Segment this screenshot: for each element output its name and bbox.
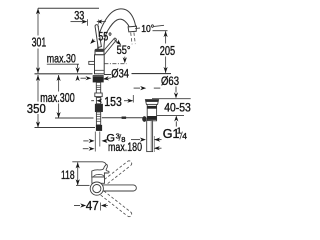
- second view bottom extension line: [76, 184, 90, 186]
- top reference line (spout top level): [38, 7, 99, 9]
- max.30 up arrow (to deck bottom): [76, 75, 80, 81]
- 55deg second down arrow: [124, 57, 126, 59]
- hose connection flare: [95, 93, 102, 97]
- second view: lever bar solid: [102, 185, 137, 191]
- dim 301 bottom arrow: [36, 67, 40, 73]
- lower shank tube upper part: [96, 98, 100, 104]
- svg-text:55°: 55°: [117, 43, 131, 57]
- diameter 63 vertical down arrow: [175, 87, 177, 93]
- G3/8 dim arrows at shank: [83, 140, 88, 142]
- second view: dashed lever down: [101, 191, 132, 217]
- svg-text:Ø34: Ø34: [111, 69, 129, 81]
- dim 301 vertical line (gap at label): [37, 8, 39, 35]
- threaded shank: [96, 82, 100, 97]
- hose end block (dark): [96, 125, 102, 131]
- svg-text:max.300: max.300: [40, 91, 75, 105]
- dim 350 bottom arrow: [36, 122, 40, 128]
- G1 1/4 dim arrows at tailpipe: [131, 139, 140, 141]
- 55deg right arc arrow: [114, 40, 119, 44]
- gasket leader arrow: [81, 77, 87, 79]
- counter line right of faucet: [104, 74, 111, 76]
- shank extension lines: [94, 132, 96, 152]
- label 10deg underlay: [140, 23, 154, 32]
- max.30 vertical line: [77, 64, 79, 68]
- dim 118 vertical line: [77, 162, 79, 185]
- dim diameter 63 line with right arrow: [134, 87, 140, 89]
- drain tailpipe: [147, 121, 153, 152]
- 10 degree slanted line: [135, 25, 164, 28]
- cartridge cap dark band: [95, 49, 104, 52]
- max.30 down arrow (to deck top): [76, 67, 80, 73]
- spout outer curve: [98, 9, 136, 49]
- dim max.300 top arrow: [57, 75, 61, 81]
- water stream dashed lines: [131, 33, 132, 45]
- second view: dashed lever up: [101, 161, 132, 187]
- drain upper dark band: [147, 106, 157, 109]
- extension line hook: [103, 162, 107, 165]
- dim 205 bottom arrow: [164, 67, 168, 73]
- dim 153 right extension line: [132, 95, 134, 103]
- second view: lever grip with upturned tip: [92, 165, 109, 177]
- 55deg left arc arrow: [92, 40, 95, 43]
- dim 350 vertical line (gap at label): [37, 75, 39, 102]
- drain lower dark band: [147, 116, 157, 120]
- mounting gasket and nut (dark): [93, 75, 104, 82]
- counter / deck line left: [35, 73, 93, 75]
- dim 47 right arrow: [103, 205, 108, 207]
- svg-text:301: 301: [32, 35, 47, 50]
- drain flange: [145, 100, 158, 105]
- label 40-53 underlay: [164, 103, 191, 113]
- dim max.300 vertical line (gap at label): [58, 75, 60, 92]
- pop-up rod connector: [122, 117, 127, 119]
- pop-up rod ball joint: [142, 116, 146, 122]
- svg-text:40-53: 40-53: [164, 101, 191, 115]
- svg-text:47: 47: [86, 199, 99, 213]
- 40-53 top reference line: [152, 98, 191, 100]
- pop-up rod: [102, 117, 144, 119]
- dim 47 line with left arrow: [74, 205, 80, 207]
- svg-text:33: 33: [74, 11, 84, 23]
- tailpipe extension line: [153, 136, 155, 152]
- dim 350 top arrow: [36, 75, 40, 81]
- lower shank tube: [96, 112, 100, 125]
- svg-text:max.180: max.180: [108, 140, 142, 154]
- tailpipe inner shade line: [150, 121, 152, 152]
- svg-text:10°: 10°: [141, 23, 154, 35]
- dim 205 top arrow: [164, 31, 168, 37]
- dim 47 extension line: [100, 203, 102, 211]
- dim 301 top arrow: [36, 8, 40, 14]
- dim 153 line with left arrow: [91, 100, 94, 102]
- spout outlet / aerator: [128, 26, 136, 32]
- max.180 dim right arrow: [156, 147, 162, 149]
- dim 33 left extension tick: [86, 19, 88, 25]
- svg-text:4: 4: [182, 131, 187, 141]
- lever handle open position (thin outline): [102, 38, 117, 55]
- second view: cartridge dome: [93, 174, 104, 177]
- shank thread ticks: [96, 85, 100, 87]
- second view: faucet body: [92, 177, 105, 183]
- body base collar line: [95, 69, 105, 71]
- lever handle (closed position): [95, 25, 101, 48]
- hatched block under shank: [95, 104, 103, 112]
- pop-up knob tab: [89, 61, 95, 64]
- extension line at hose end (350): [35, 127, 96, 129]
- drain body: [147, 104, 156, 120]
- svg-text:118: 118: [61, 169, 75, 182]
- faucet centerline (dash-dot): [98, 20, 100, 133]
- svg-text:Ø63: Ø63: [161, 76, 179, 88]
- extension line at hose connection (max.300): [55, 117, 94, 119]
- dim diameter 63 short right segment: [154, 87, 161, 89]
- second view: swivel ring: [90, 182, 103, 195]
- dim max.300 bottom arrow: [57, 112, 61, 118]
- diameter 34 leader arrow: [108, 77, 112, 80]
- spout inner curve: [104, 19, 129, 49]
- dim 33 right arrow: [98, 21, 106, 23]
- dim 153 line with right arrow: [124, 100, 131, 102]
- svg-text:153: 153: [104, 94, 122, 109]
- max.30 label underline: [47, 63, 79, 65]
- dash-dot reference line right of body: [104, 63, 126, 65]
- dim 205 vertical line: [165, 31, 167, 43]
- svg-text:1: 1: [177, 126, 182, 136]
- dim 118 bottom arrow: [76, 179, 80, 185]
- 40-53 bottom reference line: [157, 114, 184, 116]
- max.180 dim left arrow: [83, 148, 89, 150]
- dim 118 top arrow: [76, 162, 80, 168]
- cartridge cap: [95, 49, 104, 55]
- faucet body: [95, 55, 105, 74]
- 40-53 bottom arrow (outside, pointing up) with tail: [174, 116, 178, 122]
- outlet reference line: [153, 30, 168, 32]
- second view top extension line: [72, 161, 102, 163]
- svg-text:205: 205: [160, 43, 175, 58]
- dim 33 line with left arrow: [71, 21, 86, 23]
- svg-text:55°: 55°: [98, 30, 112, 44]
